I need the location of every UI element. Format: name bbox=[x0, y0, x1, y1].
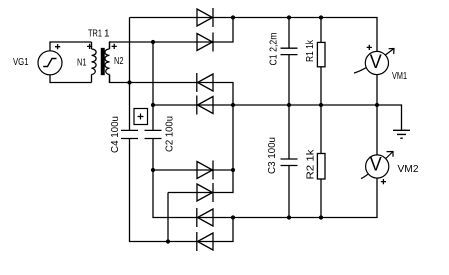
wire R2 stubs bbox=[320, 105, 322, 218]
junction node R1 bottom bbox=[319, 103, 323, 107]
capacitor C1 bbox=[281, 48, 298, 54]
svg-text:R1 1k: R1 1k bbox=[305, 39, 316, 62]
wire top rail row1 to VM1 bbox=[130, 18, 378, 52]
junction node top rail D1 bbox=[231, 15, 235, 19]
junction node riser row8 bbox=[166, 239, 170, 243]
svg-text:VM1: VM1 bbox=[392, 71, 407, 82]
junction node VM column mid bbox=[375, 103, 379, 107]
wire column C2 lower + row7 + lower rail + VM2 bottom bbox=[153, 139, 377, 218]
wire primary bottom bbox=[50, 75, 92, 83]
resistor R2 bbox=[317, 154, 325, 180]
voltmeter VM1 bbox=[365, 51, 388, 74]
plus marker N1 bbox=[87, 44, 92, 49]
ground bbox=[393, 130, 410, 138]
transformer TR1 winding N1 bbox=[91, 42, 93, 49]
junction node C1 top bbox=[287, 15, 291, 19]
capacitor C4 bbox=[121, 130, 138, 138]
wire C1 stubs bbox=[288, 18, 290, 106]
svg-text:V: V bbox=[370, 154, 382, 175]
svg-text:TR1: TR1 bbox=[88, 29, 102, 40]
junction node lower rail D7 bbox=[231, 215, 235, 219]
diode D6 bbox=[197, 183, 213, 202]
resistor R1 bbox=[317, 42, 325, 66]
svg-text:VG1: VG1 bbox=[13, 57, 29, 68]
plus marker VM2 bbox=[381, 179, 386, 184]
wire C3 stubs bbox=[288, 105, 290, 218]
wire VM2 top bbox=[376, 105, 378, 155]
wire primary top bbox=[50, 42, 92, 51]
junction node N2 bottom bbox=[127, 80, 131, 84]
wire VM1 bottom bbox=[376, 75, 378, 105]
diode D8 bbox=[197, 232, 213, 251]
wire column C4 lower + row8 bbox=[130, 139, 234, 242]
voltmeter VM1 needle bbox=[354, 49, 394, 74]
wire column C2 upper bbox=[152, 42, 154, 130]
junction node lower bridge plus bbox=[231, 168, 235, 172]
diode D1 bbox=[197, 8, 213, 27]
wire riser row6 to row8 bbox=[167, 193, 169, 242]
wire mid rail row4 with ground stem bbox=[153, 105, 402, 130]
svg-text:C4 100u: C4 100u bbox=[110, 116, 121, 153]
junction node C1 bottom bbox=[287, 103, 291, 107]
voltmeter VM1 arrowhead bbox=[389, 49, 394, 54]
junction node row4 left bbox=[151, 103, 155, 107]
voltmeter VM2 bbox=[366, 155, 389, 178]
svg-text:N2: N2 bbox=[114, 56, 124, 67]
wire row2 N2 top bbox=[110, 18, 234, 50]
svg-text:VM2: VM2 bbox=[398, 164, 419, 175]
diode D3 bbox=[197, 73, 213, 92]
transformer TR1 core bbox=[101, 49, 104, 75]
capacitor C3 bbox=[281, 159, 298, 166]
diode D4 bbox=[197, 96, 213, 115]
diode D5 bbox=[197, 161, 213, 180]
voltmeter VM2 needle bbox=[361, 152, 393, 179]
wire row5 bbox=[153, 169, 233, 171]
source VG1 bbox=[38, 51, 62, 75]
source VG1 waveform bbox=[43, 59, 56, 67]
transformer TR1 winding N2 bbox=[109, 42, 111, 49]
plus marker VM1 bbox=[367, 45, 372, 50]
voltmeter VM2 arrowhead bbox=[387, 152, 394, 157]
wire column C4 upper bbox=[129, 18, 131, 131]
junction node C3 bottom bbox=[287, 215, 291, 219]
svg-text:C2 100u: C2 100u bbox=[165, 116, 176, 152]
svg-text:C1 2,2m: C1 2,2m bbox=[269, 33, 280, 66]
plus marker N2 bbox=[112, 44, 117, 49]
junction node N2 top bbox=[151, 40, 155, 44]
capacitor C2 bbox=[145, 130, 162, 138]
junction node mid rail D4 bbox=[231, 103, 235, 107]
junction node row5 left bbox=[151, 168, 155, 172]
svg-text:R2 1k: R2 1k bbox=[306, 148, 317, 179]
svg-text:C3 100u: C3 100u bbox=[267, 137, 278, 174]
svg-text:1: 1 bbox=[104, 29, 110, 40]
svg-text:N1: N1 bbox=[77, 58, 87, 69]
junction node R1 top bbox=[319, 15, 323, 19]
wire row6 + riser to mid rail bbox=[168, 105, 233, 193]
junction node R2 bottom bbox=[319, 215, 323, 219]
diode D7 bbox=[197, 208, 213, 227]
plus marker VG1 bbox=[55, 44, 60, 49]
diode D2 bbox=[197, 33, 213, 52]
wire row3 N2 bottom bbox=[110, 75, 234, 106]
svg-text:V: V bbox=[370, 52, 382, 73]
polarity box of C2 bbox=[134, 109, 148, 125]
wire R1 stubs bbox=[320, 18, 322, 106]
